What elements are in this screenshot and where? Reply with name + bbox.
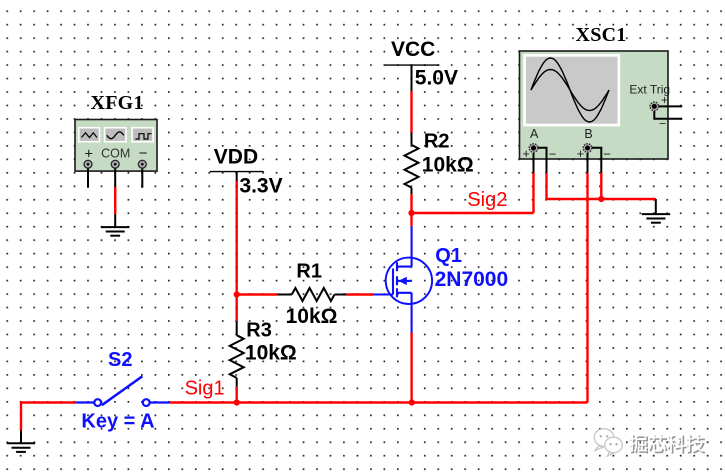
svg-text:10kΩ: 10kΩ [422, 153, 474, 176]
svg-text:Q1: Q1 [435, 245, 462, 267]
svg-text:B: B [584, 127, 592, 141]
svg-text:Sig1: Sig1 [185, 377, 225, 399]
svg-text:−: − [603, 146, 611, 161]
svg-text:R1: R1 [296, 260, 322, 282]
svg-text:S2: S2 [108, 349, 132, 371]
svg-text:VDD: VDD [214, 146, 258, 169]
svg-text:10kΩ: 10kΩ [245, 342, 297, 365]
svg-text:+: + [661, 93, 668, 107]
svg-text:Key = A: Key = A [81, 411, 154, 433]
svg-text:+: + [84, 146, 93, 163]
svg-text:A: A [530, 127, 539, 141]
svg-text:−: − [139, 145, 148, 162]
svg-text:3.3V: 3.3V [239, 174, 282, 197]
svg-text:+: + [522, 146, 530, 161]
svg-text:XSC1: XSC1 [576, 24, 627, 46]
svg-text:Sig2: Sig2 [467, 189, 507, 211]
svg-text:5.0V: 5.0V [415, 67, 458, 90]
svg-text:−: − [549, 146, 557, 161]
svg-text:VCC: VCC [391, 38, 435, 61]
svg-text:R2: R2 [424, 130, 450, 152]
svg-text:10kΩ: 10kΩ [286, 305, 338, 328]
svg-text:−: − [659, 117, 666, 131]
svg-text:2N7000: 2N7000 [435, 268, 509, 291]
svg-text:+: + [577, 146, 585, 161]
svg-text:XFG1: XFG1 [91, 92, 144, 114]
svg-text:COM: COM [101, 146, 130, 160]
svg-text:R3: R3 [246, 319, 272, 341]
